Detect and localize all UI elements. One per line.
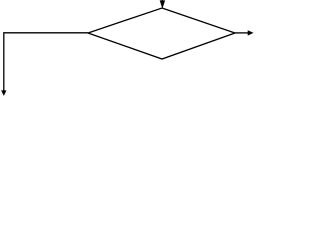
wire left branch: [4, 33, 88, 91]
incoming arrow at top: [160, 0, 165, 8]
decision diamond: [88, 8, 235, 59]
down arrowhead: [2, 91, 6, 96]
right arrowhead: [248, 31, 253, 35]
wire right branch: [235, 32, 248, 34]
